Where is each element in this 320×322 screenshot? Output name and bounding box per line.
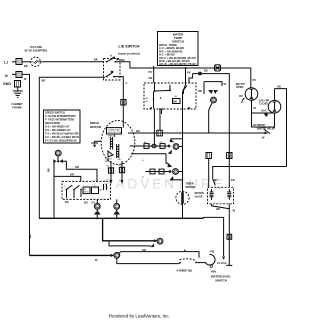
wire valve1 to mixer body	[251, 100, 253, 113]
svg-text:A: A	[110, 54, 112, 58]
terminal tick on wire	[184, 249, 187, 251]
svg-text:PSI: PSI	[210, 250, 214, 254]
svg-text:OV: OV	[239, 94, 243, 98]
svg-text:BK: BK	[136, 129, 140, 133]
svg-text:F- FAST INTERMITTENT: F- FAST INTERMITTENT	[45, 118, 75, 122]
svg-text:60 PRESF: 60 PRESF	[253, 123, 266, 127]
wire from circled 4 down	[209, 103, 212, 133]
wire circled 1 top output to water level switch	[119, 252, 199, 258]
svg-text:WATER: WATER	[195, 191, 204, 195]
wire lid switch to top rail	[120, 62, 251, 68]
wire W arrow line y133	[128, 132, 265, 134]
label LID SWITCH	[118, 45, 140, 56]
lid switch terminal marks	[113, 57, 116, 59]
svg-text:WATER VALVE: WATER VALVE	[257, 127, 275, 131]
svg-text:60%: 60%	[211, 269, 217, 273]
valve circle 2 cold	[275, 89, 287, 167]
speed switch contacts	[66, 189, 68, 191]
valve rail end at switch	[226, 250, 232, 265]
motor internals	[113, 134, 115, 137]
svg-text:S- SLOW INTERMITTENT: S- SLOW INTERMITTENT	[45, 114, 76, 118]
wire N lead	[12, 73, 16, 75]
wire circled 1 bottom output	[117, 258, 180, 263]
svg-text:L1: L1	[4, 61, 8, 65]
circled 2	[157, 238, 163, 244]
wires merge below valve box	[212, 204, 230, 250]
circled 4	[211, 97, 217, 103]
row to circled 5	[130, 145, 170, 147]
svg-text:BU: BU	[214, 178, 218, 182]
circled 3	[55, 150, 61, 156]
speed switch legend box	[44, 110, 81, 143]
circled 1	[114, 253, 120, 259]
solid component on box edge	[198, 72, 201, 75]
svg-text:F/+ GY-BU, BK&OR RD-W: F/+ GY-BU, BK&OR RD-W	[45, 139, 77, 143]
branch from rail to circle 5 top	[171, 138, 183, 140]
connector motor lead 2	[119, 167, 124, 172]
svg-text:BK: BK	[47, 168, 51, 172]
svg-text:(open position): (open position)	[118, 52, 140, 56]
wire OR branch upper	[61, 161, 98, 181]
connector GND	[15, 81, 21, 88]
svg-text:V: V	[126, 81, 128, 85]
svg-text:BU: BU	[84, 201, 88, 205]
svg-text:BK: BK	[24, 64, 28, 68]
svg-text:15A FUSE: 15A FUSE	[30, 45, 43, 49]
connector on V wire	[121, 100, 126, 106]
lid switch contact 1	[106, 61, 108, 63]
wire temp box to connector	[159, 109, 161, 130]
svg-text:F-S + BK-BU,GY&W-BU-RD: F-S + BK-BU,GY&W-BU-RD	[45, 132, 79, 136]
wire OR branch lower	[54, 176, 81, 181]
connector below valve	[227, 234, 232, 239]
motor bottom leads	[111, 161, 122, 181]
svg-text:Rendered by LeadVenture, Inc.: Rendered by LeadVenture, Inc.	[109, 314, 170, 319]
svg-text:MOTOR: MOTOR	[90, 125, 102, 129]
connector L1	[16, 59, 22, 65]
svg-text:BK: BK	[204, 69, 208, 73]
svg-text:BU: BU	[278, 85, 282, 89]
wires to circles 7 8	[97, 199, 116, 203]
svg-text:S-S + BK-W&BU-GY: S-S + BK-W&BU-GY	[45, 125, 70, 129]
svg-text:OR: OR	[142, 248, 146, 252]
svg-text:GND: GND	[3, 82, 11, 86]
connector N	[16, 72, 22, 78]
svg-text:SPEED SWITCH: SPEED SWITCH	[45, 111, 65, 115]
junction arrows below 3	[57, 156, 59, 160]
svg-text:S-F + BK-OR&BU-GY: S-F + BK-OR&BU-GY	[45, 128, 71, 132]
circled 5	[173, 144, 179, 150]
bottom N wire to circled 1	[30, 254, 112, 256]
svg-text:H/C-W + BK-BU,BK(W), PK-BU: H/C-W + BK-BU,BK(W), PK-BU	[159, 62, 197, 66]
svg-text:F-F + BK-PU, GY&BU RD-W: F-F + BK-PU, GY&BU RD-W	[45, 135, 79, 139]
svg-text:MOTOR: MOTOR	[186, 185, 196, 189]
svg-text:CABINET: CABINET	[11, 102, 23, 106]
branch from rail to circle 6 bottom	[170, 179, 183, 181]
mixing valve body	[252, 113, 275, 127]
wire legend to contacts	[153, 66, 155, 83]
solenoid coil 1	[210, 189, 214, 200]
svg-text:OR: OR	[70, 173, 74, 177]
svg-text:BU: BU	[65, 200, 69, 204]
circled 8	[94, 203, 100, 209]
inner box	[204, 82, 222, 86]
stub wire with arrow toward circled 2	[109, 241, 151, 246]
junction diamond	[168, 170, 172, 174]
svg-text:OR: OR	[75, 165, 79, 169]
svg-text:OPEN: OPEN	[236, 85, 243, 89]
arrows into speed switch	[110, 180, 113, 184]
svg-text:X-RINSE (W): X-RINSE (W)	[177, 269, 193, 273]
wire N rail down left side	[22, 74, 30, 255]
lid switch contact 2	[106, 76, 108, 78]
connector on top wire	[215, 65, 221, 71]
svg-text:FRAME: FRAME	[12, 106, 21, 110]
svg-text:PROTECTOR: PROTECTOR	[108, 132, 122, 134]
junction diamond	[167, 144, 171, 148]
connector on rail x229.7	[227, 153, 232, 159]
timer motor TM	[176, 191, 189, 204]
lid switch LS1 box	[104, 59, 121, 81]
svg-text:LID SWITCH: LID SWITCH	[119, 45, 140, 49]
svg-text:OVERLOAD: OVERLOAD	[108, 128, 121, 131]
label CABINET FRAME	[11, 102, 23, 110]
circled 6	[173, 169, 179, 175]
svg-text:OR: OR	[149, 76, 153, 80]
svg-text:(IF SO EQUIPPED): (IF SO EQUIPPED)	[25, 49, 48, 53]
boxed label BK W	[173, 99, 181, 104]
water temp switch legend box	[158, 32, 199, 66]
diag from valve body	[264, 130, 270, 134]
ground symbol	[13, 87, 23, 97]
svg-text:OR: OR	[216, 207, 220, 211]
motor ground	[95, 141, 102, 143]
svg-text:CL 8.5A: CL 8.5A	[217, 261, 227, 265]
svg-text:BK: BK	[173, 100, 177, 104]
wire bus to circled 2	[103, 218, 154, 241]
svg-text:BR: BR	[42, 79, 46, 83]
svg-text:N: N	[5, 74, 8, 78]
arrow below valve 2	[264, 113, 269, 117]
connector on rail x208.7	[206, 153, 211, 159]
arrow into circle 5 bottom	[168, 150, 173, 154]
svg-text:SWITCH: SWITCH	[215, 279, 227, 283]
arrow symbol left of valve 1	[242, 98, 245, 101]
overload protector box	[107, 128, 122, 134]
water valve solenoid box	[208, 187, 234, 204]
row to circled 6	[145, 171, 169, 173]
svg-text:MAIN: MAIN	[108, 135, 114, 138]
arrows below 7 8	[94, 211, 98, 215]
wire V lid switch down to motor	[114, 77, 123, 128]
junction dots on bus	[96, 217, 98, 219]
svg-text:BK: BK	[94, 58, 98, 62]
fuse F1	[22, 61, 31, 63]
diamond arrows	[208, 90, 213, 94]
arrow bus into water level switch	[222, 257, 225, 260]
connector motor lead 1	[108, 168, 113, 173]
solenoid coil 2	[227, 189, 231, 200]
wire BR branch	[39, 77, 105, 218]
wire y166.5 from BU rail	[213, 167, 287, 180]
label 15A FUSE	[25, 45, 48, 53]
speed switch left wires	[53, 162, 55, 218]
connector on y133	[157, 130, 163, 136]
svg-text:PU: PU	[149, 70, 153, 74]
X-RINSE contact	[179, 262, 181, 264]
svg-text:SPD: SPD	[84, 192, 89, 194]
arrow into circle 6 top	[168, 163, 173, 168]
svg-text:GN: GN	[231, 178, 235, 182]
svg-text:CLOSE: CLOSE	[259, 102, 268, 106]
svg-text:PK: PK	[187, 71, 191, 75]
svg-text:LEADVENTURE: LEADVENTURE	[93, 177, 226, 192]
valve circle 1 hot	[250, 68, 252, 88]
wire temp box to row1	[153, 109, 155, 146]
long bottom bus	[39, 217, 203, 219]
junction top rail	[185, 67, 187, 69]
svg-text:PU: PU	[253, 78, 257, 82]
row 2 from motor	[131, 154, 168, 164]
svg-text:VALVE: VALVE	[195, 195, 204, 199]
water temp switch contact box	[144, 83, 196, 109]
temp switch contacts	[154, 90, 156, 92]
svg-text:TIMER: TIMER	[186, 182, 194, 186]
water level switch contact	[205, 254, 215, 265]
wire L1 to lid switch	[40, 61, 104, 63]
drive motor dashed circle	[101, 121, 135, 165]
svg-text:OR: OR	[198, 89, 202, 93]
circled 7	[114, 203, 120, 209]
wire L1 lead	[12, 61, 16, 63]
svg-text:BK: BK	[28, 234, 32, 238]
label WATERLEVEL SWITCH	[211, 275, 231, 283]
boxed labels in speed switch	[83, 187, 90, 194]
svg-text:WASH-SPIN: WASH-SPIN	[45, 121, 60, 125]
svg-text:BoT: BoT	[262, 109, 267, 113]
timer rail right	[183, 68, 186, 219]
speed switch contact box	[62, 181, 111, 199]
svg-text:SWITCH: SWITCH	[172, 40, 184, 44]
temp switch solid box	[193, 74, 230, 188]
